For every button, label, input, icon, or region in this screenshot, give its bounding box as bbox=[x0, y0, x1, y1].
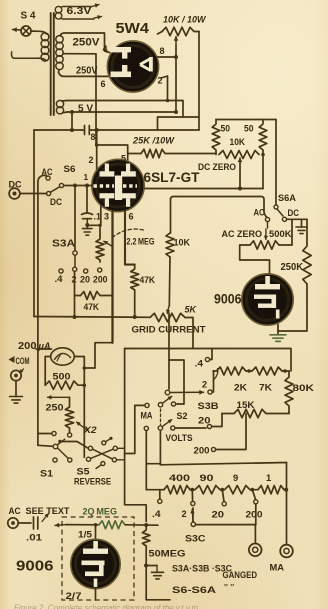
wire 50MEG bottom bbox=[144, 546, 148, 600]
wire 10K top corner bbox=[171, 197, 267, 234]
resistor 400 bbox=[164, 472, 190, 494]
S3B contact .4 bbox=[195, 357, 210, 368]
S3B rotation arc bbox=[214, 369, 218, 380]
wire lamp to primary bbox=[31, 31, 46, 34]
potentiometer 2.2 MEG bbox=[96, 235, 104, 262]
wire 6.3V bottom lead with arrow bbox=[63, 15, 102, 19]
label 50 left bbox=[221, 124, 231, 134]
wire 5V top lead to pin 2 bbox=[67, 101, 183, 118]
svg-text:2K: 2K bbox=[234, 383, 247, 393]
9006 bottom stem bbox=[276, 310, 280, 319]
resistor 250K bbox=[281, 219, 312, 284]
transformer 250V secondary winding bbox=[56, 36, 63, 73]
label AC ZERO bbox=[222, 228, 263, 239]
wire B- long rail bbox=[125, 349, 291, 372]
svg-text:6SL7-GT: 6SL7-GT bbox=[144, 169, 200, 185]
switch S4 label bbox=[21, 11, 37, 22]
S3C arm arrow bbox=[191, 510, 195, 522]
wire 500K right up bbox=[279, 219, 292, 245]
resistor 1 bbox=[250, 472, 286, 494]
svg-text:400: 400 bbox=[169, 472, 190, 483]
S1 arm bbox=[57, 439, 64, 445]
label AC SEE TEXT bbox=[9, 505, 70, 516]
wire 10K to S3B pivot bbox=[169, 257, 170, 389]
S2 bottom arm bbox=[162, 420, 172, 427]
9006 probe bottom stem bbox=[94, 579, 98, 588]
svg-text:DC: DC bbox=[288, 208, 300, 218]
label .1 bbox=[94, 212, 101, 222]
wire 47K bottom to 5K bbox=[133, 290, 137, 319]
wire contact2 down bbox=[73, 272, 77, 320]
ground at COM jack bbox=[10, 381, 23, 403]
resistor 500 bbox=[45, 381, 84, 389]
svg-text:500: 500 bbox=[53, 372, 71, 383]
pilot lamp at S4 bbox=[21, 26, 31, 36]
wire pin3 to cap node bbox=[87, 205, 101, 225]
svg-text:250V: 250V bbox=[76, 65, 98, 77]
svg-text:20: 20 bbox=[80, 275, 90, 285]
wire HV top lead to 5W4 pin 4 bbox=[60, 33, 110, 53]
svg-text:5W4: 5W4 bbox=[116, 21, 150, 37]
label 250V lower bbox=[76, 65, 98, 77]
svg-text:2.2 MEG: 2.2 MEG bbox=[127, 237, 155, 247]
wire S1 to S5 link bbox=[62, 442, 89, 449]
S2 pivot bottom bbox=[158, 426, 162, 430]
wire S5 right contacts to rail bbox=[117, 448, 125, 460]
svg-text:.4: .4 bbox=[55, 274, 64, 284]
wire lamp left lead with arrow bbox=[13, 28, 21, 32]
svg-text:50: 50 bbox=[244, 124, 254, 134]
label REVERSE bbox=[74, 476, 111, 487]
wire 200 tap down bbox=[255, 504, 257, 525]
S2 contact MA top bbox=[145, 403, 149, 407]
S5 cross wire 2 bbox=[91, 449, 114, 458]
svg-text:MA: MA bbox=[270, 563, 285, 574]
switch S1 pivot bbox=[53, 444, 58, 449]
svg-text:1/5: 1/5 bbox=[78, 530, 92, 540]
wire cathode rail pin3 bbox=[111, 211, 113, 343]
svg-text:5K: 5K bbox=[185, 305, 198, 315]
6SL7 center cathode bar bbox=[115, 176, 122, 201]
capacitor .1 grid bbox=[82, 186, 93, 227]
wire HV center tap bbox=[63, 54, 96, 145]
S3A contact 2 bbox=[72, 267, 77, 284]
svg-text:6.3V: 6.3V bbox=[67, 6, 93, 17]
svg-text:2: 2 bbox=[182, 509, 187, 519]
svg-text:47K: 47K bbox=[140, 275, 156, 285]
S2 top arm bbox=[162, 396, 172, 403]
svg-text:S1: S1 bbox=[40, 469, 54, 480]
label S1 bbox=[40, 469, 54, 480]
wire 5K right lead bbox=[185, 318, 193, 349]
wire MA line bbox=[160, 463, 286, 465]
9006 probe cathode symbol bbox=[82, 561, 105, 577]
resistor 9 bbox=[220, 472, 250, 494]
switch S3C pivot bbox=[191, 522, 195, 526]
wire DC jack to S6 bbox=[20, 193, 47, 195]
svg-text:DC ZERO: DC ZERO bbox=[198, 161, 236, 172]
tube V3 9006 envelope bbox=[242, 274, 293, 325]
svg-text:COM: COM bbox=[16, 355, 30, 366]
svg-text:6: 6 bbox=[129, 212, 134, 222]
S5 contact left top bbox=[88, 446, 92, 450]
wiper arrow on 10K/10W bbox=[174, 37, 178, 47]
wire 2 contact to row1 bbox=[212, 371, 213, 392]
pin label 2 of 6SL7 bbox=[89, 155, 94, 165]
wire H2 stub bbox=[158, 117, 200, 130]
5W4 filament symbol bbox=[140, 57, 153, 72]
wire meter right lead bbox=[74, 357, 86, 458]
wire B+ from 5W4 pin 8 bbox=[157, 55, 178, 59]
svg-text:90: 90 bbox=[200, 472, 214, 483]
wire 10K/10W right end down bbox=[198, 32, 200, 131]
wire .4 tap join bbox=[158, 504, 160, 525]
pin label 2 of 5W4 bbox=[158, 76, 163, 86]
label 10K plate bbox=[174, 238, 191, 248]
wire box right side to S6A bbox=[275, 120, 277, 205]
junction dot right of capacitor bbox=[95, 128, 99, 132]
S6 contact AC bbox=[46, 176, 50, 180]
wire 9006 cathode lead bbox=[277, 325, 279, 335]
transformer 6.3V heater winding bbox=[55, 6, 63, 19]
svg-text:20: 20 bbox=[198, 416, 211, 426]
S6A contact AC bbox=[254, 208, 270, 222]
S6A arm bbox=[277, 209, 283, 216]
meter M1 200uA bbox=[51, 348, 75, 365]
label 25K/10W bbox=[132, 136, 175, 147]
wire cathode stair to meter bbox=[84, 343, 112, 368]
wire AC rail to S1 bbox=[38, 434, 53, 447]
resistor 10K plate bbox=[166, 233, 174, 257]
svg-text:50MEG: 50MEG bbox=[149, 548, 186, 559]
svg-text:MA: MA bbox=[141, 411, 153, 421]
wire 5V bottom lead bbox=[67, 111, 176, 113]
resistor 47K divider bbox=[81, 292, 101, 300]
junction dot on filter rail bbox=[70, 128, 74, 132]
tap 2 of ladder bbox=[182, 490, 195, 519]
caption fragment bbox=[14, 604, 200, 609]
resistor 47K cathode bbox=[131, 265, 139, 290]
svg-text:AC ZERO: AC ZERO bbox=[222, 228, 263, 239]
tube V1 5W4 envelope bbox=[107, 41, 158, 92]
9006 probe plate symbol bbox=[83, 541, 108, 554]
wire 9006 probe plate lead bbox=[94, 523, 98, 540]
pin label 8 of 5W4 bbox=[160, 46, 165, 56]
9006 cathode symbol bbox=[254, 295, 276, 309]
svg-text:200: 200 bbox=[246, 510, 263, 520]
svg-text:15K: 15K bbox=[237, 400, 255, 410]
label 20MEG bbox=[83, 506, 118, 517]
svg-text:DC: DC bbox=[50, 197, 62, 207]
S5 contact right bottom bbox=[112, 458, 116, 462]
resistor 50 left bbox=[212, 120, 220, 155]
jack J2 COM bbox=[11, 369, 24, 381]
transformer T1 core bbox=[51, 13, 54, 115]
ground probe bbox=[152, 566, 164, 579]
S5 pivot top bbox=[102, 437, 113, 445]
svg-text:500K: 500K bbox=[269, 228, 292, 239]
label 5K bbox=[185, 305, 198, 315]
switch S6 arm bbox=[50, 187, 59, 193]
pin label 6 of 6SL7 bbox=[129, 212, 134, 222]
S1 contact bottom left bbox=[53, 458, 57, 462]
svg-text:10K: 10K bbox=[230, 137, 246, 147]
svg-text:S3A: S3A bbox=[52, 239, 75, 250]
jack J3 volts bbox=[249, 544, 262, 557]
svg-text:47K: 47K bbox=[84, 302, 100, 312]
S1 throw line bbox=[58, 449, 68, 459]
label 6.3V bbox=[67, 6, 93, 17]
label S3A bbox=[52, 239, 75, 250]
6SL7 plate 1 bbox=[100, 164, 115, 177]
wire 20MEG right lead bbox=[125, 523, 158, 527]
svg-text:80K: 80K bbox=[293, 383, 315, 393]
label 47K cathode bbox=[140, 275, 156, 285]
dashed probe shield box bbox=[62, 517, 134, 600]
wire 2.2MEG top lead bbox=[98, 224, 101, 235]
6SL7 plate 2 bbox=[121, 164, 136, 177]
resistor 50 MEG bbox=[142, 526, 150, 547]
label AC at S6 bbox=[42, 167, 53, 177]
svg-text:25K /10W: 25K /10W bbox=[132, 136, 175, 147]
wire probe line with arrow bbox=[55, 523, 99, 527]
jack J4 MA bbox=[280, 545, 293, 558]
potentiometer 5K grid current bbox=[150, 313, 185, 321]
svg-text:GANGED: GANGED bbox=[223, 570, 258, 581]
svg-text:1: 1 bbox=[84, 172, 89, 182]
5K wiper arrow bbox=[166, 306, 170, 314]
label GANGED bbox=[223, 570, 258, 581]
wire S2 MA top contact to S5 rail bbox=[125, 405, 145, 453]
wire rail corner down bbox=[125, 349, 147, 522]
wire 250K bottom to cathode bbox=[278, 284, 307, 331]
transformer T1 primary winding bbox=[38, 33, 49, 61]
label S3A-S3B-S3C bbox=[172, 564, 232, 575]
svg-text:REVERSE: REVERSE bbox=[74, 476, 111, 487]
svg-text:250: 250 bbox=[46, 403, 64, 414]
S1 contact bottom right bbox=[68, 458, 72, 462]
svg-text:200: 200 bbox=[18, 341, 37, 352]
wire S2 pivots link dashed bbox=[160, 409, 162, 425]
tap 20 of ladder bbox=[212, 490, 227, 520]
wire probe return bottom bbox=[146, 599, 170, 601]
label 5W4 bbox=[116, 21, 150, 37]
label S2 bbox=[177, 411, 188, 422]
S2 pivot top bbox=[158, 403, 162, 407]
potentiometer 10K DC ZERO bbox=[219, 151, 259, 159]
label GRID CURRENT bbox=[132, 325, 206, 336]
pin label 1 of 6SL7 bbox=[84, 172, 89, 182]
svg-text:200: 200 bbox=[93, 275, 108, 285]
wire ladder left riser bbox=[146, 489, 164, 491]
svg-text:VOLTS: VOLTS bbox=[166, 433, 193, 443]
wire bias line bbox=[34, 316, 150, 319]
250 bottom contact bbox=[68, 433, 72, 437]
wire plate wire pin 4 bbox=[145, 188, 263, 190]
svg-text:X2: X2 bbox=[83, 424, 97, 435]
S3B arm bbox=[171, 390, 204, 394]
svg-text:S3C: S3C bbox=[185, 534, 206, 545]
wire 10K right to plate wire bbox=[261, 153, 265, 189]
label 5V bbox=[78, 103, 93, 115]
S2 contact MA bottom bbox=[144, 426, 148, 430]
svg-text:250K: 250K bbox=[281, 262, 304, 273]
label 9006 lower bbox=[16, 558, 54, 575]
wire 9006 probe cathode lead bbox=[95, 589, 97, 601]
250 wiper arrow bbox=[77, 422, 98, 435]
label 50 right bbox=[244, 124, 254, 134]
S5 cross wire 1 bbox=[93, 449, 113, 459]
jack J5 AC input bbox=[8, 518, 18, 528]
svg-text:6: 6 bbox=[101, 79, 106, 89]
wire S2 pivot output bbox=[146, 430, 160, 465]
wire S3C to left jack bbox=[196, 525, 256, 543]
wire 200 contact to row2 bbox=[216, 414, 246, 450]
DC ZERO wiper arrow bbox=[238, 158, 242, 191]
rheostat 250 arrow bbox=[48, 395, 70, 399]
label 500 bbox=[53, 372, 71, 383]
svg-text:20: 20 bbox=[212, 510, 225, 520]
label S3C bbox=[185, 534, 206, 545]
svg-text:9006: 9006 bbox=[214, 292, 242, 307]
wire divider box top bbox=[216, 119, 276, 121]
wire 6.3V top lead with arrow bbox=[63, 4, 99, 8]
wire 47K divider right lead bbox=[100, 295, 113, 297]
wire HV bottom lead to 5W4 pin 6 bbox=[59, 72, 111, 76]
label DC at S6 bbox=[50, 197, 62, 207]
svg-text:8: 8 bbox=[160, 46, 165, 56]
S3B contact 2 bbox=[202, 380, 212, 395]
wire primary bottom lead bbox=[11, 52, 38, 58]
wire meter left lead bbox=[45, 357, 51, 386]
label 9006 upper bbox=[214, 292, 242, 307]
resistor 20 MEG bbox=[99, 521, 125, 529]
svg-text:7K: 7K bbox=[259, 383, 272, 393]
6SL7 cathode 2 bbox=[121, 193, 136, 207]
wire S2 MA bottom contact to ladder bbox=[145, 431, 147, 490]
transformer 5V rectifier filament winding bbox=[56, 100, 67, 114]
S1 contact top bbox=[52, 431, 56, 435]
svg-text:200: 200 bbox=[194, 446, 210, 456]
svg-text:″ ″: ″ ″ bbox=[224, 583, 234, 592]
label MA at S2 bbox=[141, 411, 153, 421]
ditto marks bbox=[224, 583, 234, 592]
label pin 2/7 bbox=[66, 591, 82, 601]
svg-text:2Q MEG: 2Q MEG bbox=[83, 506, 118, 517]
resistor 15K bbox=[222, 400, 289, 418]
svg-text:AC: AC bbox=[254, 208, 265, 218]
svg-text:4: 4 bbox=[103, 44, 108, 54]
potentiometer 500K bbox=[250, 241, 279, 249]
wire S6A DC to ground bbox=[287, 218, 307, 220]
label 10K in box bbox=[230, 137, 246, 147]
label S6A bbox=[278, 193, 296, 204]
AC ZERO wiper arrow bbox=[264, 222, 268, 240]
pin label 4 of 5W4 bbox=[103, 44, 108, 54]
label COM with arrow bbox=[9, 355, 30, 366]
svg-text:S 4: S 4 bbox=[21, 11, 37, 22]
svg-text:.01: .01 bbox=[26, 533, 42, 543]
label 200uA bbox=[18, 341, 51, 352]
tube V4 9006 probe envelope bbox=[71, 539, 120, 588]
resistor 10K/10W bbox=[162, 27, 199, 35]
wire 20 contact to row2 bbox=[212, 414, 222, 427]
S3A wiper arm bbox=[74, 255, 76, 266]
svg-text:S3B: S3B bbox=[198, 401, 219, 412]
S6A contact DC bbox=[282, 208, 299, 221]
label 6SL7-GT bbox=[144, 169, 200, 185]
pin label 3 of 6SL7 bbox=[104, 212, 109, 222]
resistor 25K/10W bbox=[141, 149, 216, 157]
svg-text:2: 2 bbox=[89, 155, 94, 165]
wire 47K divider left lead bbox=[75, 295, 81, 297]
S2 contact VOLTS top bbox=[171, 402, 175, 406]
label S3B bbox=[198, 401, 219, 412]
wire 5W4 pin 2 to 5V winding bbox=[161, 76, 169, 102]
svg-text:10K / 10W: 10K / 10W bbox=[163, 15, 206, 26]
capacitor 8uF filter bbox=[85, 126, 96, 143]
svg-text:1: 1 bbox=[266, 472, 271, 483]
svg-text:S6-S6A: S6-S6A bbox=[172, 585, 216, 596]
resistor 7K bbox=[246, 367, 289, 393]
5W4 plate 2 symbol bbox=[111, 65, 132, 77]
label 50MEG bbox=[149, 548, 186, 559]
6SL7 grid dashes bbox=[94, 184, 138, 187]
wire .01 arrow up bbox=[42, 514, 49, 522]
switch S3B pivot bbox=[165, 390, 170, 395]
svg-text:Figure 2. Complete schemati: Figure 2. Complete schematic diagram of … bbox=[14, 604, 200, 609]
9006 plate symbol bbox=[255, 276, 280, 289]
svg-text:DC: DC bbox=[9, 179, 22, 190]
wire S2 volts top to 10K rail bbox=[169, 360, 184, 404]
ground at S6A DC bbox=[296, 219, 307, 233]
wire S2 volts bottom bbox=[176, 427, 206, 429]
svg-text:AC: AC bbox=[9, 505, 21, 516]
svg-text:9: 9 bbox=[233, 472, 238, 483]
label S6 bbox=[64, 163, 76, 174]
svg-text:3: 3 bbox=[104, 212, 109, 222]
resistor 2K bbox=[213, 367, 247, 393]
svg-text:8: 8 bbox=[91, 132, 96, 142]
pin label 5 of 6SL7 bbox=[121, 154, 126, 164]
capacitor .01 bbox=[18, 517, 42, 543]
resistor 50 right bbox=[259, 120, 267, 155]
tap .4 of ladder bbox=[152, 490, 162, 519]
S3A contact 20 bbox=[80, 269, 90, 285]
svg-text:2: 2 bbox=[202, 380, 207, 390]
switch S6 pivot bbox=[47, 191, 51, 195]
wire rail to meter bbox=[36, 348, 52, 350]
label 10K/10W bbox=[163, 15, 206, 26]
svg-text:.4: .4 bbox=[152, 509, 161, 519]
wire 25K left to pin5 lead bbox=[128, 153, 141, 155]
wire S3C riser bbox=[192, 508, 194, 522]
rheostat 250 bbox=[65, 397, 73, 432]
label 250 bbox=[46, 403, 64, 414]
tube V2 6SL7-GT envelope bbox=[92, 159, 144, 211]
wire 10K/10W left lead bbox=[158, 32, 163, 35]
tap 200 of ladder bbox=[246, 490, 263, 520]
S5 contact left bottom bbox=[86, 457, 90, 461]
wire left B- rail bbox=[33, 130, 35, 317]
S3B contact 20 bbox=[198, 416, 212, 429]
svg-text:50: 50 bbox=[221, 124, 231, 134]
wire pin8/wiper down to 5V lead bbox=[174, 46, 178, 114]
label 500K bbox=[269, 228, 292, 239]
wire S3A wiper feed bbox=[74, 186, 76, 251]
dashed coupling arc bbox=[112, 229, 146, 237]
wire plates feed to 6SL7 pins 2,5 bbox=[95, 130, 128, 172]
